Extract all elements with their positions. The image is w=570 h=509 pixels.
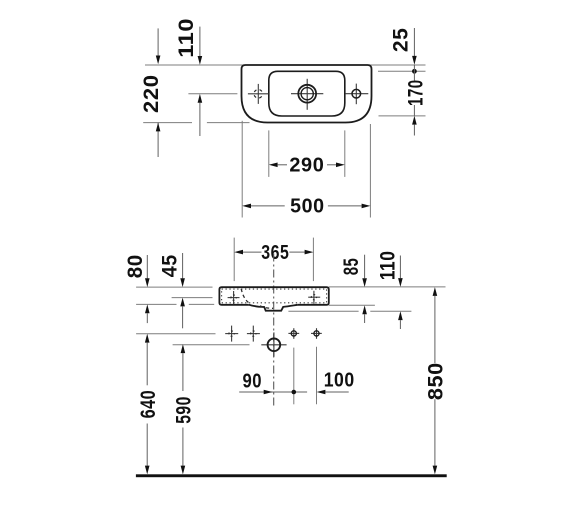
dimension 45 (ledge depth, left)	[158, 253, 185, 328]
dimension 85 (slab height, right)	[339, 255, 367, 323]
svg-text:80: 80	[123, 254, 147, 278]
dimension 640 (fixing holes to floor)	[136, 334, 160, 475]
left wall-fixing hole mark (elevation)	[228, 291, 240, 304]
svg-text:290: 290	[289, 155, 324, 177]
dimension 290 (bowl width)	[269, 130, 345, 177]
svg-text:25: 25	[388, 28, 412, 53]
fixing hole 1 (below basin)	[225, 326, 238, 342]
extension line: basin bottom edge (elevation right)	[329, 304, 375, 306]
extension line: hole 3 vertical	[293, 348, 295, 405]
dimension 110 (plan view)	[174, 18, 202, 136]
extension line: inner ledge 45 (elevation left)	[172, 297, 213, 299]
dimension 80 (slab height, left)	[123, 254, 150, 323]
extension line: basin top edge (elevation, left + right)	[136, 286, 212, 288]
dimension 90 (centre to hole 3)	[239, 370, 307, 394]
dimension 850 (basin top to floor)	[424, 287, 448, 474]
washbasin outer outline (plan view)	[242, 65, 372, 123]
drain hole circle	[261, 332, 286, 356]
svg-text:85: 85	[339, 258, 363, 276]
extension line: 170 bottom (right)	[379, 115, 426, 117]
svg-text:170: 170	[403, 79, 427, 106]
centre line through drain (dash-dot)	[273, 254, 275, 407]
central faucet hole (plan view)	[291, 79, 323, 110]
extension line: fixing holes row (left)	[136, 333, 215, 335]
svg-text:640: 640	[136, 390, 160, 419]
left tap hole mark (plan view)	[248, 84, 269, 104]
dimension 170 (plan view right)	[403, 65, 427, 136]
inner bowl outline (plan view)	[269, 71, 345, 116]
right wall-fixing hole mark (elevation)	[308, 291, 320, 304]
svg-text:220: 220	[139, 74, 163, 113]
svg-text:100: 100	[324, 370, 355, 392]
supply hole 4	[311, 328, 322, 339]
extension line: top edge of basin (plan view)	[145, 64, 426, 66]
svg-text:365: 365	[261, 242, 289, 264]
dimension 365 (hole spacing)	[234, 238, 313, 282]
hidden edge dotted inner outline (elevation slab)	[222, 289, 327, 303]
dimension 110 (boss depth, right)	[375, 251, 402, 329]
extension line: faucet hole centre (left)	[188, 93, 237, 95]
extension line: drain centre (left)	[173, 344, 250, 346]
svg-text:45: 45	[158, 254, 182, 277]
dimension 100 (hole 3 to hole 4)	[317, 370, 355, 395]
hidden bowl wall dashed curve (elevation)	[241, 289, 250, 304]
right hole (plan view)	[345, 84, 368, 105]
hidden drain dashes inside boss	[260, 306, 273, 309]
dimension 220 (plan view left)	[139, 28, 163, 157]
extension line: drain boss bottom (elevation right, gapped)	[288, 310, 358, 312]
extension line: hole 4 vertical	[316, 347, 318, 405]
extension line: bottom edge of basin (left, with gap)	[143, 122, 192, 124]
supply hole 3	[288, 328, 299, 339]
dimension 590 (drain centre to floor)	[172, 344, 196, 474]
fixing hole 2 (below basin)	[247, 326, 260, 342]
extension line: basin bottom edge (elevation left, gapped)	[136, 303, 176, 305]
svg-text:90: 90	[243, 370, 263, 392]
svg-text:110: 110	[375, 251, 399, 281]
svg-text:590: 590	[172, 396, 196, 424]
extension line: 25 offset (right)	[378, 70, 426, 72]
svg-text:110: 110	[174, 18, 198, 58]
washbasin slab outline (elevation)	[219, 287, 328, 305]
bowl and drain boss profile (elevation)	[249, 305, 298, 311]
svg-text:850: 850	[424, 362, 448, 400]
floor line	[136, 474, 447, 477]
dimension 500 (basin width)	[242, 121, 370, 218]
dimension 25 (plan view right)	[388, 28, 416, 74]
svg-text:500: 500	[290, 196, 325, 218]
